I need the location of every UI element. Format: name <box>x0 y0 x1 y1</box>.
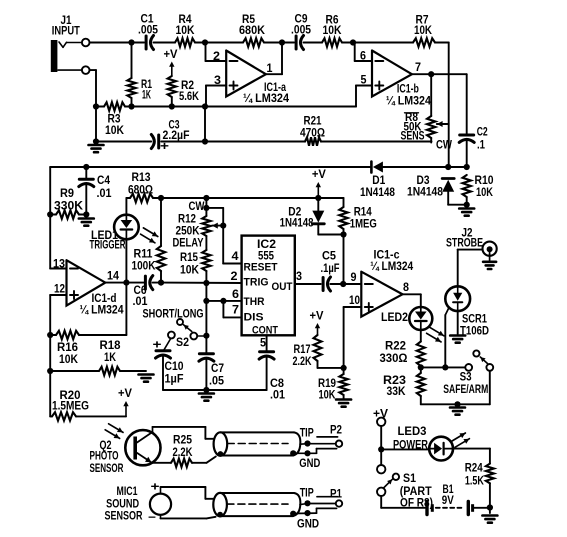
svg-text:2.2K: 2.2K <box>173 447 194 459</box>
svg-text:LED3: LED3 <box>398 426 427 438</box>
svg-text:2: 2 <box>231 271 238 283</box>
svg-text:P2: P2 <box>330 425 342 437</box>
svg-text:470Ω: 470Ω <box>300 128 325 140</box>
svg-text:R3: R3 <box>108 114 121 126</box>
svg-text:10K: 10K <box>59 354 79 366</box>
svg-text:TIP: TIP <box>300 487 314 499</box>
svg-text:TRIGGER: TRIGGER <box>90 240 126 252</box>
svg-text:STROBE: STROBE <box>446 237 483 249</box>
svg-text:+V: +V <box>310 311 324 323</box>
svg-text:GND: GND <box>299 458 320 470</box>
svg-text:(PART: (PART <box>400 486 432 498</box>
svg-text:7: 7 <box>415 62 421 74</box>
svg-text:1N4148: 1N4148 <box>280 218 314 230</box>
svg-text:SENSOR: SENSOR <box>105 511 144 523</box>
svg-text:PHOTO: PHOTO <box>90 451 119 463</box>
svg-text:P1: P1 <box>330 489 343 501</box>
svg-text:LED2: LED2 <box>381 312 408 324</box>
svg-text:S3: S3 <box>460 372 472 384</box>
svg-text:C10: C10 <box>165 361 184 373</box>
svg-text:2.2K: 2.2K <box>293 356 313 368</box>
svg-text:330K: 330K <box>54 201 84 213</box>
svg-text:+: + <box>160 141 169 153</box>
svg-text:4: 4 <box>232 251 240 263</box>
svg-text:10K: 10K <box>414 25 433 37</box>
svg-text:S1: S1 <box>403 473 417 485</box>
svg-text:+: + <box>153 340 162 352</box>
svg-text:R10: R10 <box>475 175 494 187</box>
svg-text:14: 14 <box>107 271 120 283</box>
svg-text:¼ LM324: ¼ LM324 <box>80 305 125 317</box>
svg-text:SAFE/ARM: SAFE/ARM <box>443 384 488 396</box>
svg-text:10K: 10K <box>319 390 337 402</box>
svg-text:IC2: IC2 <box>257 239 276 251</box>
svg-text:CONT: CONT <box>252 325 278 337</box>
svg-text:.01: .01 <box>270 390 286 402</box>
svg-text:INPUT: INPUT <box>52 26 80 38</box>
svg-text:IC1-d: IC1-d <box>92 293 117 305</box>
svg-text:SOUND: SOUND <box>106 499 139 511</box>
svg-text:.1µF: .1µF <box>321 263 340 275</box>
svg-text:10: 10 <box>349 295 360 307</box>
svg-text:R24: R24 <box>465 463 484 475</box>
svg-text:1: 1 <box>267 63 274 75</box>
svg-text:C4: C4 <box>97 175 111 187</box>
svg-text:+V: +V <box>312 169 326 181</box>
svg-text:R25: R25 <box>173 435 193 447</box>
svg-text:POWER: POWER <box>393 439 429 451</box>
svg-text:OUT: OUT <box>272 281 293 293</box>
svg-text:6: 6 <box>232 289 239 301</box>
svg-text:100K: 100K <box>132 261 157 273</box>
svg-text:MIC1: MIC1 <box>117 486 138 498</box>
svg-text:SCR1: SCR1 <box>462 314 487 326</box>
svg-text:TRIG: TRIG <box>244 276 269 288</box>
svg-text:+V: +V <box>118 388 132 400</box>
svg-text:.005: .005 <box>291 25 312 37</box>
svg-text:3: 3 <box>296 271 302 283</box>
svg-text:1N4148: 1N4148 <box>407 187 444 199</box>
svg-text:680Ω: 680Ω <box>128 185 153 197</box>
svg-text:C2: C2 <box>477 127 488 139</box>
svg-text:250K: 250K <box>176 226 201 238</box>
svg-text:1N4148: 1N4148 <box>360 187 396 199</box>
svg-text:7: 7 <box>232 305 239 317</box>
svg-text:.01: .01 <box>97 188 113 200</box>
svg-text:.1: .1 <box>477 140 486 152</box>
svg-text:R11: R11 <box>134 249 154 261</box>
svg-text:10K: 10K <box>105 125 125 137</box>
svg-text:C7: C7 <box>211 363 224 375</box>
svg-text:10K: 10K <box>176 25 196 37</box>
svg-text:R17: R17 <box>294 344 311 356</box>
svg-text:IC1-b: IC1-b <box>397 84 419 96</box>
svg-text:¼ LM324: ¼ LM324 <box>243 93 290 105</box>
svg-text:8: 8 <box>403 282 410 294</box>
svg-text:1.5MEG: 1.5MEG <box>52 400 89 412</box>
svg-text:1µF: 1µF <box>165 374 184 386</box>
svg-text:SENSOR: SENSOR <box>90 463 124 475</box>
svg-text:R14: R14 <box>354 207 373 219</box>
svg-text:12: 12 <box>54 284 65 296</box>
svg-text:¼ LM324: ¼ LM324 <box>370 261 414 273</box>
svg-text:9V: 9V <box>442 495 454 507</box>
svg-text:D3: D3 <box>417 175 430 187</box>
svg-text:C5: C5 <box>322 251 337 263</box>
svg-text:R22: R22 <box>385 341 406 353</box>
svg-text:THR: THR <box>244 296 265 308</box>
svg-text:1K: 1K <box>142 90 151 102</box>
svg-text:DIS: DIS <box>244 312 264 324</box>
svg-text:1MEG: 1MEG <box>350 219 377 231</box>
svg-text:RESET: RESET <box>244 262 278 274</box>
svg-text:IC1-c: IC1-c <box>374 250 401 262</box>
svg-text:1.5K: 1.5K <box>465 476 485 488</box>
svg-text:¼ LM324: ¼ LM324 <box>386 95 432 107</box>
svg-text:−: − <box>148 512 156 524</box>
svg-text:R16: R16 <box>57 342 78 354</box>
svg-text:+: + <box>151 482 160 494</box>
svg-text:R18: R18 <box>100 340 122 352</box>
svg-text:GND: GND <box>297 518 319 530</box>
svg-text:330Ω: 330Ω <box>380 353 408 365</box>
svg-text:10K: 10K <box>180 265 200 277</box>
svg-text:680K: 680K <box>239 25 266 37</box>
svg-text:TIP: TIP <box>300 428 314 440</box>
svg-text:R12: R12 <box>178 214 196 226</box>
svg-text:9: 9 <box>351 272 357 284</box>
svg-text:10K: 10K <box>476 187 494 199</box>
svg-text:C8: C8 <box>270 378 285 390</box>
svg-text:R9: R9 <box>60 188 74 200</box>
svg-text:R13: R13 <box>132 172 151 184</box>
svg-text:SHORT/LONG: SHORT/LONG <box>143 309 204 321</box>
svg-text:R15: R15 <box>180 252 199 264</box>
svg-text:.01: .01 <box>133 296 149 308</box>
svg-text:.05: .05 <box>209 376 225 388</box>
svg-text:.005: .005 <box>138 25 159 37</box>
svg-text:CW: CW <box>436 140 452 152</box>
svg-text:R19: R19 <box>318 378 336 390</box>
svg-text:D1: D1 <box>372 175 386 187</box>
svg-text:S2: S2 <box>176 337 189 349</box>
svg-text:33K: 33K <box>387 386 407 398</box>
svg-text:1K: 1K <box>104 352 117 364</box>
svg-text:10K: 10K <box>323 25 343 37</box>
svg-text:+V: +V <box>164 49 178 61</box>
svg-text:DELAY: DELAY <box>173 238 204 250</box>
svg-text:CW: CW <box>189 201 205 213</box>
svg-text:5: 5 <box>260 338 267 350</box>
svg-text:R21: R21 <box>304 116 323 128</box>
svg-text:5.6K: 5.6K <box>179 91 200 103</box>
